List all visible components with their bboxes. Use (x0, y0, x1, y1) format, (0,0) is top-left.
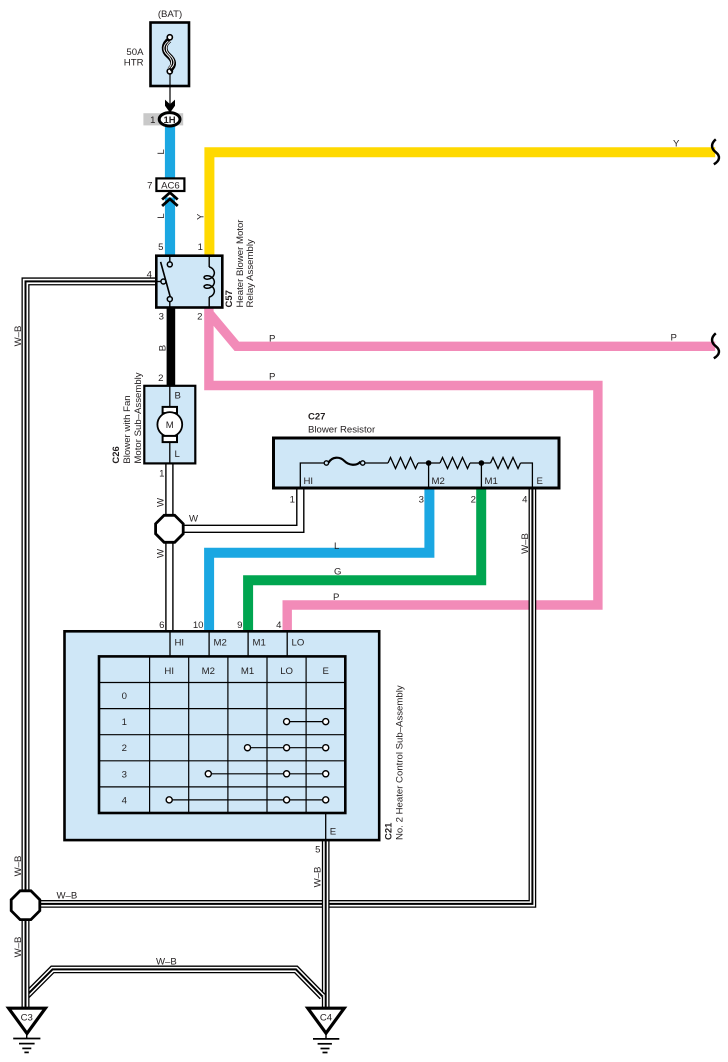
svg-text:10: 10 (193, 620, 204, 631)
svg-text:W–B: W–B (13, 937, 24, 958)
C21 row 2 contacts M1-LO-E (244, 745, 328, 751)
svg-text:HI: HI (164, 666, 174, 677)
svg-text:0: 0 (122, 691, 127, 702)
svg-text:3: 3 (419, 495, 424, 506)
svg-text:4: 4 (276, 620, 282, 631)
svg-text:Y: Y (195, 213, 206, 220)
C27 internal circuit (300, 458, 532, 487)
continuation curl pink wire (712, 333, 719, 358)
wire W-B relay pin 4 to lower junction octagon (26, 281, 157, 892)
motor C26 internal lead B (169, 386, 171, 407)
arrowhead into connector 1H (165, 100, 175, 113)
motor C26 brush lower (163, 436, 177, 442)
ground C3 connector triangle (9, 1008, 46, 1033)
connector 1H oval (159, 113, 180, 126)
svg-text:L: L (156, 148, 167, 154)
svg-text:2: 2 (471, 495, 476, 506)
C21 terminal stub M1 (247, 631, 249, 656)
svg-text:1: 1 (122, 717, 127, 728)
svg-text:2: 2 (158, 373, 163, 384)
fuse 50A HTR box (151, 23, 190, 87)
svg-text:L: L (334, 541, 340, 552)
svg-text:3: 3 (159, 312, 164, 323)
wire W (white) motor pin 1 to junction octagon (165, 463, 173, 516)
C21 row 4 contacts HI-LO-E (166, 797, 329, 803)
wire Y (yellow) from relay pin 1 to right edge (209, 152, 715, 256)
svg-text:(BAT): (BAT) (158, 9, 182, 20)
svg-text:E: E (322, 666, 328, 677)
svg-text:B: B (157, 345, 168, 351)
wire W-B C21 pin 5 (E) down to ground C4 (322, 840, 330, 1009)
wire L (blue) from connector 1H to relay pin 5 (165, 126, 175, 257)
svg-text:W: W (189, 513, 199, 524)
C21 row 3 contacts M2-LO-E (205, 771, 329, 777)
motor C26 armature circle M (157, 412, 182, 437)
svg-text:M1: M1 (485, 476, 498, 487)
blower resistor C27 box (274, 438, 560, 488)
svg-text:HI: HI (304, 476, 314, 487)
C21 terminal stub LO (286, 631, 288, 656)
svg-text:No. 2 Heater Control Sub–Assem: No. 2 Heater Control Sub–Assembly (395, 685, 406, 840)
relay C57 box (156, 256, 222, 308)
svg-text:C27: C27 (308, 412, 325, 423)
svg-text:L: L (175, 449, 181, 460)
svg-text:L: L (156, 213, 167, 219)
C21 row 1 contacts LO-E (284, 719, 329, 725)
svg-text:HI: HI (175, 638, 185, 649)
ground C4 connector triangle (308, 1008, 344, 1033)
svg-text:E: E (537, 476, 543, 487)
svg-text:G: G (334, 567, 341, 578)
svg-text:5: 5 (158, 242, 163, 253)
ground C4 symbol (313, 1033, 339, 1053)
svg-text:M1: M1 (253, 638, 266, 649)
svg-text:W–B: W–B (313, 867, 324, 888)
svg-text:C4: C4 (320, 1013, 333, 1024)
heater control C21 box (65, 631, 380, 840)
relay C57 coil (204, 256, 214, 308)
ground C3 symbol (13, 1033, 40, 1053)
svg-text:P: P (671, 333, 677, 344)
svg-text:C26: C26 (111, 446, 122, 463)
svg-text:3: 3 (122, 769, 127, 780)
svg-text:Relay Assembly: Relay Assembly (245, 239, 256, 307)
svg-text:2: 2 (197, 312, 202, 323)
svg-text:P: P (269, 334, 275, 345)
motor C26 internal lead L (169, 442, 171, 464)
svg-text:HTR: HTR (124, 58, 144, 69)
svg-text:1H: 1H (164, 115, 176, 126)
svg-text:Motor Sub–Assembly: Motor Sub–Assembly (133, 372, 144, 463)
C21 terminal stub HI (169, 631, 171, 656)
svg-text:P: P (269, 372, 275, 383)
fuse 50A HTR fusible-link symbol (164, 35, 174, 74)
svg-text:W–B: W–B (520, 533, 531, 554)
svg-text:AC6: AC6 (161, 180, 180, 191)
svg-text:M2: M2 (214, 638, 227, 649)
svg-text:P: P (333, 592, 339, 603)
svg-text:9: 9 (237, 620, 242, 631)
junction octagon (white wire node) (156, 515, 184, 542)
svg-text:M2: M2 (202, 666, 215, 677)
svg-text:E: E (330, 827, 336, 838)
svg-text:W–B: W–B (13, 856, 24, 877)
svg-text:4: 4 (122, 795, 128, 806)
C21 table row labels 0-4 (122, 691, 128, 806)
svg-text:2: 2 (122, 743, 127, 754)
wire P (pink) relay pin 2 down, right, down to C21 pin 4 (LO) (209, 308, 598, 632)
svg-text:Blower Resistor: Blower Resistor (308, 425, 376, 436)
wire fuse output to connector 1H (169, 74, 171, 104)
svg-text:1: 1 (159, 469, 164, 480)
svg-text:5: 5 (315, 845, 320, 856)
C21 terminal stub M2 (208, 631, 210, 656)
connector 1H gray band (143, 113, 183, 125)
svg-text:LO: LO (292, 638, 305, 649)
C21 switch table grid (99, 656, 345, 813)
wire W-B C27 pin 4 (E) down and left to lower junction octagon (38, 488, 532, 904)
fuse value label 50A HTR (124, 47, 144, 69)
connector AC6 chevrons (162, 193, 178, 206)
wire P (pink) relay pin 2 branch to right edge (209, 313, 715, 346)
C21 table column headers (164, 666, 329, 677)
wire W (white) junction to C27 pin 1 (HI) (180, 488, 300, 529)
wire B (black) relay pin 3 to motor pin 2 (167, 308, 176, 387)
svg-text:M1: M1 (241, 666, 254, 677)
svg-text:LO: LO (280, 666, 293, 677)
svg-text:Y: Y (673, 139, 680, 150)
motor C26 brush upper (163, 407, 177, 413)
svg-text:1: 1 (150, 115, 155, 126)
svg-text:W: W (156, 497, 167, 507)
motor C26 name label (122, 372, 144, 463)
svg-text:W–B: W–B (156, 957, 177, 968)
svg-text:4: 4 (147, 270, 153, 281)
C21 terminal stub E (325, 813, 327, 840)
wire L (blue) C27 pin 3 (M2) to C21 pin 10 (209, 488, 429, 631)
relay C57 name label (235, 219, 256, 308)
svg-text:W–B: W–B (13, 326, 24, 347)
svg-text:7: 7 (147, 180, 152, 191)
blower motor C26 box (144, 386, 195, 464)
svg-text:C21: C21 (384, 822, 395, 840)
wire W (white) junction to C21 pin 6 (HI) (165, 541, 173, 631)
wire W-B link between C3 and C4 ground drops (26, 969, 323, 996)
wire G (green) C27 pin 2 (M1) to C21 pin 9 (248, 488, 481, 631)
svg-text:50A: 50A (126, 47, 144, 58)
svg-text:6: 6 (159, 620, 164, 631)
lower junction octagon (W-B ground node) (11, 891, 40, 920)
svg-text:W: W (156, 548, 167, 558)
relay C57 switch contact (156, 256, 172, 308)
svg-text:B: B (175, 391, 181, 402)
svg-text:C3: C3 (21, 1013, 33, 1024)
svg-text:W–B: W–B (57, 891, 78, 902)
svg-text:Blower with Fan: Blower with Fan (122, 395, 133, 463)
connector AC6 box (156, 178, 184, 191)
svg-text:1: 1 (290, 495, 295, 506)
svg-text:1: 1 (198, 242, 203, 253)
svg-text:4: 4 (522, 495, 528, 506)
svg-text:M: M (166, 420, 174, 431)
svg-text:C57: C57 (224, 290, 235, 307)
svg-text:M2: M2 (432, 476, 445, 487)
wire W-B lower junction to ground C3 (22, 918, 30, 1009)
continuation curl yellow wire (712, 139, 719, 164)
